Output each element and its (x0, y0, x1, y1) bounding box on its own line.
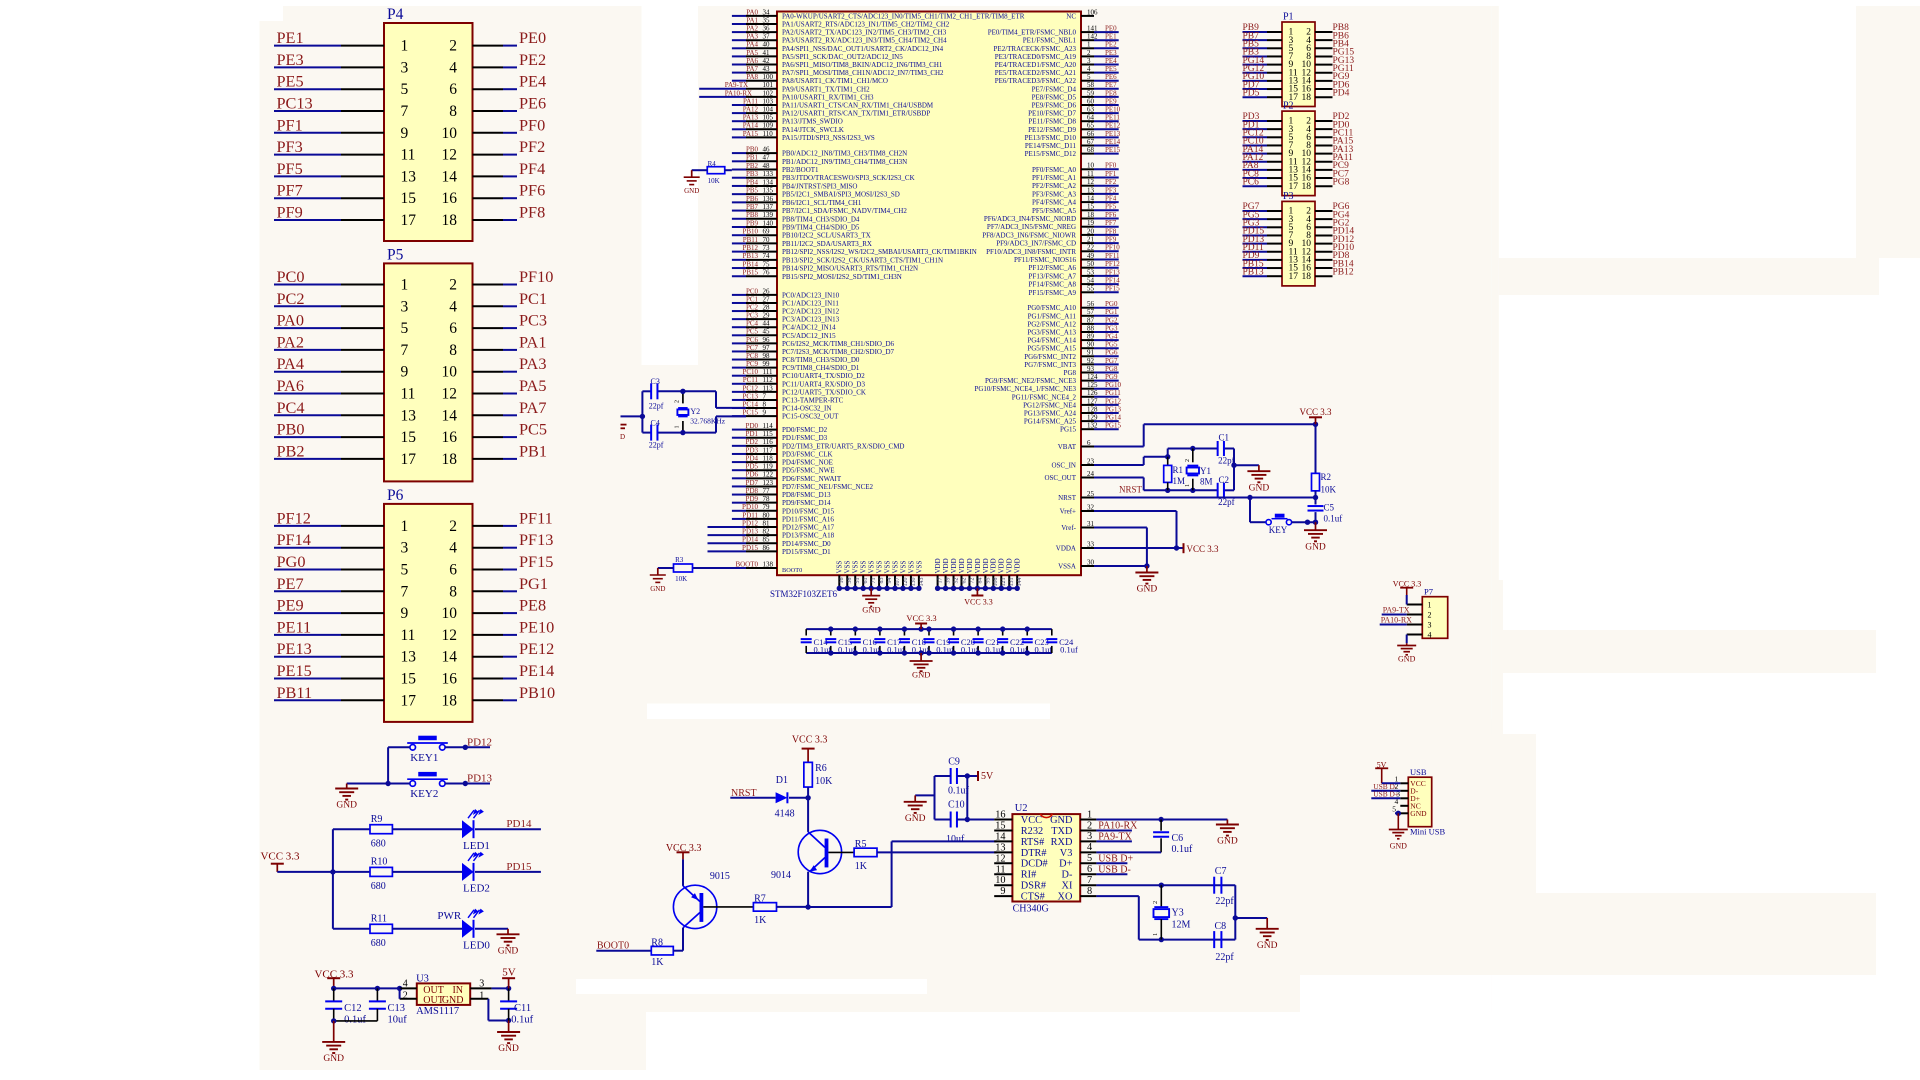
svg-text:PB15: PB15 (742, 269, 758, 277)
U1 pin 83 VSS (878, 575, 880, 588)
svg-text:PB2/BOOT1: PB2/BOOT1 (782, 166, 819, 174)
P1 pin 7 wire PB3 (1243, 55, 1268, 57)
P1 pin 15 wire PD7 (1243, 88, 1268, 90)
U1 pin 14 PF4 (1081, 201, 1094, 203)
svg-text:PE8: PE8 (519, 596, 546, 615)
U1 pin 20 PF8 (1081, 234, 1094, 236)
svg-text:10: 10 (1087, 162, 1095, 170)
U1 pin 42 PA6 (732, 64, 746, 66)
svg-text:PF14: PF14 (1105, 277, 1120, 285)
svg-text:45: 45 (763, 328, 771, 336)
USB pin 1 VCC (1400, 782, 1408, 784)
svg-text:15: 15 (995, 820, 1005, 831)
svg-text:PF2/FSMC_A2: PF2/FSMC_A2 (1032, 182, 1076, 190)
svg-text:PC3/ADC123_IN13: PC3/ADC123_IN13 (782, 316, 840, 324)
ground (1304, 522, 1327, 552)
svg-text:PG1: PG1 (519, 574, 548, 593)
wire U3 pin1 to ground (487, 999, 489, 1021)
svg-text:6: 6 (449, 320, 457, 337)
svg-text:11: 11 (401, 627, 416, 644)
svg-text:PB4/JNTRST/SPI3_MISO: PB4/JNTRST/SPI3_MISO (782, 182, 857, 190)
P6 pin 10 wire PE8 (473, 612, 504, 614)
svg-text:PF15: PF15 (1105, 285, 1120, 293)
node Y2 gnd tap (640, 414, 645, 419)
wire VSS bus (839, 587, 919, 589)
svg-text:USB D+: USB D+ (1373, 790, 1399, 799)
svg-text:142: 142 (1087, 33, 1098, 41)
svg-text:135: 135 (763, 187, 774, 195)
wire NRST to D1 (730, 797, 775, 799)
svg-text:PD5/FSMC_NWE: PD5/FSMC_NWE (782, 467, 835, 475)
svg-text:PB10: PB10 (519, 683, 555, 702)
svg-text:PE11: PE11 (1105, 114, 1120, 122)
wire RTS branch (891, 841, 893, 907)
svg-text:2: 2 (675, 400, 681, 403)
U1 pin 87 PG2 (1081, 323, 1094, 325)
svg-text:7: 7 (763, 392, 767, 400)
svg-text:GND: GND (323, 1054, 344, 1064)
svg-text:122: 122 (763, 471, 774, 479)
U1 pin 13 PF3 (1081, 193, 1094, 195)
U1 pin 69 PB10 (732, 234, 746, 236)
svg-text:32.768KHz: 32.768KHz (690, 417, 725, 426)
svg-text:15: 15 (401, 190, 417, 207)
U1 pin 38 VSS (846, 575, 848, 588)
svg-text:PA14/JTCK_SWCLK: PA14/JTCK_SWCLK (782, 126, 844, 134)
svg-text:PF11: PF11 (519, 508, 553, 527)
svg-text:35: 35 (763, 16, 771, 24)
svg-text:PB14: PB14 (742, 260, 758, 268)
svg-text:GND: GND (684, 187, 699, 195)
svg-text:PG6: PG6 (1105, 349, 1118, 357)
U1 pin 85 PD14 (708, 542, 747, 544)
node Y1 top (1190, 446, 1195, 451)
P3 pin 1 wire PG7 (1243, 210, 1268, 212)
U1 pin 110 PA15 (732, 136, 746, 138)
svg-text:PF5: PF5 (277, 159, 303, 178)
svg-text:PD12: PD12 (467, 736, 492, 748)
svg-text:PE12/FSMC_D9: PE12/FSMC_D9 (1028, 126, 1076, 134)
svg-text:37: 37 (763, 33, 771, 41)
svg-text:13: 13 (401, 649, 417, 666)
P2 pin 17 wire PC6 (1243, 185, 1268, 187)
U1 pin 43 PA7 (732, 72, 746, 74)
svg-text:C10: C10 (948, 800, 965, 811)
svg-text:58: 58 (1087, 81, 1095, 89)
U1 pin 4 PE5 (1081, 72, 1094, 74)
svg-text:27: 27 (763, 295, 771, 303)
svg-text:PF1/FSMC_A1: PF1/FSMC_A1 (1032, 174, 1076, 182)
U1 pin 70 PB11 (732, 242, 746, 244)
svg-text:22pf: 22pf (1218, 497, 1235, 507)
svg-text:BOOT0: BOOT0 (782, 567, 802, 574)
svg-text:VCC 3.3: VCC 3.3 (260, 851, 300, 863)
svg-text:64: 64 (1087, 114, 1095, 122)
U1 pin 112 PC11 (732, 383, 746, 385)
svg-text:680: 680 (371, 938, 386, 949)
wire LED rail vertical (332, 829, 334, 929)
svg-text:VDD: VDD (958, 558, 966, 573)
capacitor C11 (508, 988, 510, 1001)
svg-text:30: 30 (1087, 558, 1095, 566)
svg-text:PB0: PB0 (746, 146, 759, 154)
svg-text:PE13: PE13 (277, 639, 312, 658)
svg-text:2: 2 (1428, 611, 1432, 620)
svg-text:130: 130 (911, 578, 917, 587)
svg-text:PA4/SPI1_NSS/DAC_OUT1/USART2_C: PA4/SPI1_NSS/DAC_OUT1/USART2_CK/ADC12_IN… (782, 45, 944, 53)
ground P7 (1406, 643, 1408, 645)
svg-text:PF1: PF1 (1105, 170, 1117, 178)
svg-text:Y1: Y1 (1200, 466, 1211, 476)
svg-text:10uf: 10uf (946, 834, 965, 845)
svg-text:PA5/SPI1_SCK/DAC_OUT2/ADC12_IN: PA5/SPI1_SCK/DAC_OUT2/ADC12_IN5 (782, 53, 903, 61)
svg-text:34: 34 (763, 8, 771, 16)
P6 pin 3 wire PF14 (274, 547, 341, 549)
P6 pin 18 wire PB10 (473, 699, 504, 701)
svg-text:4148: 4148 (775, 809, 795, 820)
svg-text:PC3: PC3 (746, 312, 759, 320)
svg-text:PD2/TIM3_ETR/UART5_RX/SDIO_CMD: PD2/TIM3_ETR/UART5_RX/SDIO_CMD (782, 442, 904, 450)
svg-text:PA0: PA0 (277, 311, 304, 330)
svg-text:90: 90 (1087, 341, 1095, 349)
U1 pin 28 PC2 (732, 310, 746, 312)
U1 pin 90 PG5 (1081, 347, 1094, 349)
svg-text:87: 87 (1087, 316, 1095, 324)
U1 pin 64 PE11 (1081, 120, 1094, 122)
U2 pin 4 V3 (1080, 851, 1096, 853)
svg-text:6: 6 (1087, 439, 1091, 447)
svg-text:67: 67 (1087, 138, 1095, 146)
svg-text:24: 24 (1087, 470, 1095, 478)
wire R2 to NRST (1315, 491, 1317, 498)
U1 pin 56 PG0 (1081, 307, 1094, 309)
svg-text:41: 41 (763, 49, 771, 57)
svg-text:PE1: PE1 (1105, 33, 1117, 41)
ground USB (1389, 829, 1408, 831)
U1 pin 95 VDD (984, 575, 986, 588)
P3 pin 12 wire PD10 (1315, 251, 1333, 253)
svg-text:PF5/FSMC_A5: PF5/FSMC_A5 (1032, 207, 1076, 215)
svg-text:5: 5 (1087, 853, 1092, 864)
U1 pin 100 PA8 (732, 80, 746, 82)
svg-text:PB4: PB4 (746, 178, 759, 186)
P3 pin 17 wire PB13 (1243, 275, 1268, 277)
svg-text:96: 96 (763, 336, 771, 344)
svg-text:TXD: TXD (1051, 826, 1073, 837)
svg-text:R2: R2 (1321, 472, 1332, 482)
svg-text:22pf: 22pf (1215, 952, 1234, 963)
P3 pin 13 wire PD9 (1243, 259, 1268, 261)
svg-text:10K: 10K (708, 177, 720, 185)
U1 pin 142 PE1 (1081, 39, 1094, 41)
P4 pin 1 wire PE1 (274, 45, 341, 47)
svg-text:4: 4 (403, 979, 408, 990)
svg-text:123: 123 (763, 479, 774, 487)
svg-text:68: 68 (1087, 146, 1095, 154)
svg-text:PF8/ADC3_IN6/FSMC_NIOWR: PF8/ADC3_IN6/FSMC_NIOWR (982, 231, 1076, 239)
svg-text:7: 7 (1087, 875, 1092, 886)
wire VCC to R2 (1315, 424, 1317, 473)
svg-text:PG7/FSMC_INT3: PG7/FSMC_INT3 (1024, 361, 1076, 369)
svg-text:PD10/FSMC_D15: PD10/FSMC_D15 (782, 507, 835, 515)
svg-text:PC6: PC6 (1243, 177, 1260, 187)
svg-text:GND: GND (1305, 542, 1326, 552)
svg-text:PF14: PF14 (277, 530, 311, 549)
wire R5 to DTR (877, 851, 997, 853)
U1 pin 88 PG3 (1081, 331, 1094, 333)
svg-text:VSS: VSS (883, 561, 891, 574)
U2 pin 10 DSR# (994, 884, 1012, 886)
wire Q2 base to R5 (828, 851, 854, 853)
svg-text:PF4: PF4 (1105, 195, 1117, 203)
svg-text:0.1uf: 0.1uf (1172, 844, 1194, 855)
svg-text:PG4: PG4 (1105, 333, 1118, 341)
svg-text:PG6/FSMC_INT2: PG6/FSMC_INT2 (1024, 353, 1076, 361)
resistor R3 (674, 564, 693, 572)
svg-text:C13: C13 (388, 1003, 406, 1014)
svg-text:PE15: PE15 (1105, 146, 1121, 154)
svg-text:21: 21 (1087, 236, 1095, 244)
U1 pin 134 PB4 (732, 185, 746, 187)
svg-text:OSC_OUT: OSC_OUT (1044, 474, 1076, 482)
svg-text:88: 88 (1087, 324, 1095, 332)
U1 pin 62 VDD (960, 575, 962, 588)
svg-text:PA10-RX: PA10-RX (725, 89, 752, 97)
svg-text:DTR#: DTR# (1021, 848, 1047, 859)
P1 pin 9 wire PG14 (1243, 64, 1268, 66)
P6 pin 17 wire PB11 (274, 699, 341, 701)
svg-text:PC5: PC5 (519, 420, 547, 439)
svg-text:1: 1 (1087, 809, 1092, 820)
svg-text:22pf: 22pf (649, 441, 664, 450)
U1 pin 16 VSS (838, 575, 840, 588)
U1 pin 135 PB5 (732, 193, 746, 195)
P5 pin 11 wire PA6 (274, 393, 341, 395)
svg-text:C4: C4 (651, 419, 660, 428)
svg-text:PF5: PF5 (1105, 203, 1117, 211)
U1 pin 144 VDD (1016, 575, 1018, 588)
svg-text:C2: C2 (1219, 475, 1230, 485)
svg-text:PF3/FSMC_A3: PF3/FSMC_A3 (1032, 190, 1076, 198)
svg-text:PWR: PWR (437, 910, 462, 922)
svg-text:PE9/FSMC_D6: PE9/FSMC_D6 (1032, 102, 1077, 110)
svg-text:59: 59 (1087, 89, 1095, 97)
svg-text:77: 77 (763, 487, 771, 495)
wire Q1 base to R7 (703, 906, 753, 908)
svg-text:PC4: PC4 (277, 398, 305, 417)
ground (684, 170, 700, 195)
svg-text:PD15/FSMC_D1: PD15/FSMC_D1 (782, 548, 831, 556)
U1 pin 25 NRST (1081, 497, 1094, 499)
svg-text:PD4: PD4 (1333, 88, 1350, 98)
svg-text:12: 12 (442, 627, 458, 644)
svg-text:PE6/TRACED3/FSMC_A22: PE6/TRACED3/FSMC_A22 (995, 77, 1077, 85)
power VCC 3.3 at VDDA (1177, 547, 1184, 549)
U1 pin 2 PE3 (1081, 55, 1094, 57)
svg-text:KEY: KEY (1269, 525, 1288, 535)
svg-text:USB D-: USB D- (1098, 864, 1131, 875)
svg-text:136: 136 (763, 195, 774, 203)
U1 pin 125 PG10 (1081, 388, 1094, 390)
svg-text:GND: GND (442, 995, 464, 1006)
resistor R8 (651, 946, 673, 955)
svg-text:R3: R3 (675, 556, 684, 564)
svg-text:PD7: PD7 (746, 479, 759, 487)
svg-text:LED2: LED2 (463, 883, 490, 895)
svg-text:GND: GND (1257, 941, 1278, 951)
svg-text:9014: 9014 (771, 870, 791, 881)
svg-text:PE0: PE0 (1105, 25, 1117, 33)
U1 pin 101 PA9-TX (699, 88, 746, 90)
wire to ground stub (915, 794, 934, 796)
svg-text:62: 62 (961, 578, 967, 584)
power 5V at U3 (508, 978, 510, 988)
P5 pin 15 wire PB0 (274, 436, 341, 438)
svg-text:D1: D1 (776, 775, 788, 786)
U1 pin 66 PE13 (1081, 136, 1094, 138)
svg-text:VCC 3.3: VCC 3.3 (1299, 407, 1332, 417)
svg-text:PC4: PC4 (746, 320, 759, 328)
svg-text:PG12/FSMC_NE4: PG12/FSMC_NE4 (1023, 401, 1076, 409)
P5 pin 12 wire PA5 (473, 393, 504, 395)
ground (335, 784, 358, 811)
P3 pin 6 wire PG2 (1315, 226, 1333, 228)
svg-text:61: 61 (863, 578, 869, 584)
svg-text:46: 46 (763, 146, 771, 154)
capacitor C21 (977, 629, 979, 635)
svg-text:PG3/FSMC_A13: PG3/FSMC_A13 (1027, 329, 1076, 337)
svg-text:PC12/UART5_TX/SDIO_CK: PC12/UART5_TX/SDIO_CK (782, 388, 866, 396)
svg-text:53: 53 (1087, 268, 1095, 276)
U1 pin 99 PC9 (732, 367, 746, 369)
wire VCC to LED rail (277, 871, 333, 873)
P6 pin 13 wire PE13 (274, 656, 341, 658)
svg-text:PB10: PB10 (742, 228, 758, 236)
capacitor C5 (1315, 498, 1317, 505)
svg-text:P1: P1 (1283, 12, 1294, 23)
svg-text:39: 39 (945, 578, 951, 584)
U1 pin 80 PD11 (732, 518, 746, 520)
wire C10 left (935, 819, 951, 821)
svg-text:PB12/SPI2_NSS/I2S2_WS/I2C2_SMB: PB12/SPI2_NSS/I2S2_WS/I2C2_SMBAI/USART3_… (782, 248, 977, 256)
P4 pin 12 wire PF2 (473, 154, 504, 156)
svg-text:R8: R8 (651, 937, 663, 948)
svg-text:VCC 3.3: VCC 3.3 (792, 735, 828, 746)
svg-text:PF3: PF3 (277, 137, 303, 156)
U1 pin 114 PD0 (732, 429, 746, 431)
U2 pin 3 RXD (1080, 840, 1096, 842)
resistor R5 (854, 848, 877, 857)
P3 pin 5 wire PG3 (1243, 226, 1268, 228)
svg-text:10: 10 (442, 364, 458, 381)
svg-text:2: 2 (1152, 901, 1159, 904)
svg-text:2: 2 (1087, 49, 1091, 57)
svg-text:5: 5 (401, 81, 409, 98)
U1 pin 143 VSS (918, 575, 920, 588)
svg-text:100: 100 (763, 73, 774, 81)
svg-text:PD14: PD14 (506, 818, 532, 830)
P2 pin 18 wire PG8 (1315, 185, 1333, 187)
U1 pin 12 PF2 (1081, 185, 1094, 187)
svg-text:PE2: PE2 (519, 50, 546, 69)
U1 pin 9 PC15 (732, 415, 746, 417)
svg-text:R232: R232 (1021, 826, 1043, 837)
svg-text:143: 143 (919, 578, 925, 587)
svg-text:121: 121 (1001, 578, 1007, 587)
push button KEY2 (410, 781, 416, 787)
svg-text:PC2: PC2 (746, 303, 759, 311)
U2 pin 8 XO (1080, 895, 1096, 897)
svg-text:93: 93 (1087, 365, 1095, 373)
svg-text:18: 18 (1302, 272, 1312, 282)
U1 pin 98 PC8 (732, 359, 746, 361)
USB pin 5 GND (1400, 812, 1408, 814)
svg-text:PG12: PG12 (1105, 397, 1121, 405)
svg-text:GND: GND (1398, 655, 1416, 664)
net label PA9-TX (1096, 840, 1132, 842)
P4 pin 7 wire PC13 (274, 110, 341, 112)
svg-text:PG9/FSMC_NE2/FSMC_NCE3: PG9/FSMC_NE2/FSMC_NCE3 (985, 377, 1077, 385)
svg-text:119: 119 (763, 463, 774, 471)
wire R10 to LED2 (392, 871, 462, 873)
P5 pin 18 wire PB1 (473, 458, 504, 460)
svg-text:PB2: PB2 (277, 441, 305, 460)
svg-text:PC1: PC1 (746, 295, 759, 303)
P1 pin 6 wire PB4 (1315, 47, 1333, 49)
P4 pin 13 wire PF5 (274, 175, 341, 177)
svg-text:139: 139 (763, 211, 774, 219)
P5 pin 3 wire PC2 (274, 305, 341, 307)
svg-text:OSC_IN: OSC_IN (1051, 461, 1076, 469)
svg-text:17: 17 (401, 451, 417, 468)
P2 pin 14 wire PC9 (1315, 169, 1333, 171)
svg-text:PG1/FSMC_A11: PG1/FSMC_A11 (1028, 312, 1077, 320)
svg-text:PE14: PE14 (519, 661, 554, 680)
capacitor C20 (953, 629, 955, 635)
svg-text:15: 15 (401, 429, 417, 446)
svg-text:GND: GND (498, 1044, 519, 1054)
wire P7 pin2 (1382, 614, 1407, 616)
svg-text:18: 18 (1302, 93, 1312, 103)
wire LED0 to ground (475, 928, 508, 930)
power VCC 3.3 VDD bus (976, 588, 978, 595)
U1 pin 115 PD1 (732, 437, 746, 439)
svg-text:PF0: PF0 (1105, 162, 1117, 170)
svg-text:PE6: PE6 (519, 94, 546, 113)
svg-text:PE13: PE13 (1105, 130, 1121, 138)
P7 pin 4 (1407, 634, 1423, 636)
U1 pin 54 PF14 (1081, 283, 1094, 285)
svg-text:PG10/FSMC_NCE4_1/FSMC_NE3: PG10/FSMC_NCE4_1/FSMC_NE3 (974, 385, 1076, 393)
svg-text:PG15: PG15 (1060, 426, 1076, 434)
wire key branch (1249, 498, 1251, 523)
svg-text:55: 55 (1087, 285, 1095, 293)
svg-text:BOOT0: BOOT0 (735, 560, 758, 568)
U1 pin 123 PD7 (732, 485, 746, 487)
svg-text:PA1: PA1 (746, 16, 758, 24)
svg-text:0.1uf: 0.1uf (1324, 513, 1343, 523)
svg-text:32: 32 (1087, 503, 1095, 511)
U1 pin 17 VDD (937, 575, 939, 588)
svg-text:PE3: PE3 (1105, 49, 1117, 57)
wire VDD bus (938, 587, 1018, 589)
svg-text:42: 42 (763, 57, 771, 65)
svg-text:PA3/USART2_RX/ADC123_IN3/TIM5_: PA3/USART2_RX/ADC123_IN3/TIM5_CH4/TIM2_C… (782, 37, 947, 45)
svg-text:PG8: PG8 (1105, 365, 1118, 373)
svg-text:8: 8 (763, 400, 767, 408)
svg-text:PG0/FSMC_A10: PG0/FSMC_A10 (1027, 304, 1076, 312)
P4 pin 11 wire PF3 (274, 154, 341, 156)
